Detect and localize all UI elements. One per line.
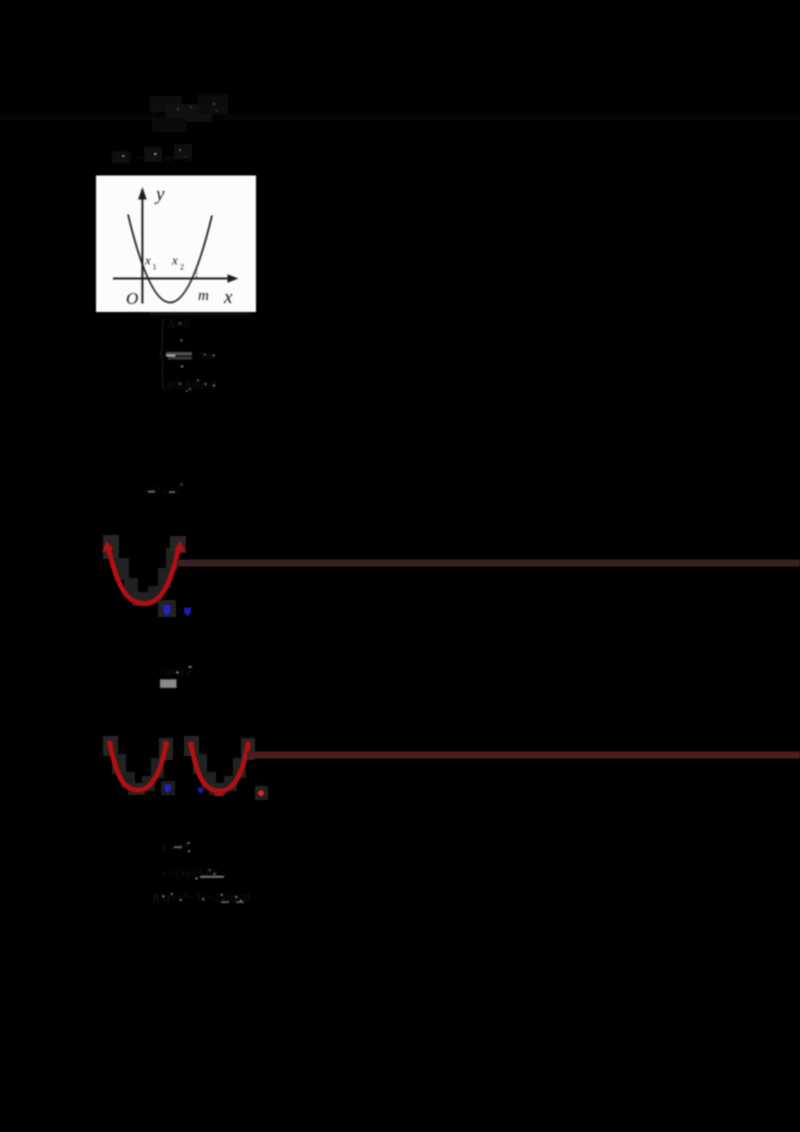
right arrowhead (175, 541, 186, 553)
halo blocks curve B (184, 736, 199, 756)
faint separator band (0, 113, 800, 120)
blue mark 2 (184, 608, 191, 617)
gray artifact halo blocks (103, 535, 119, 559)
figure: white box with parabola graph (96, 176, 256, 316)
svg-text:1: 1 (153, 263, 157, 272)
svg-text:<m: <m (197, 348, 214, 362)
drawing 2: two red parabolas (103, 736, 255, 796)
red curve A (110, 744, 166, 790)
svg-text:x: x (223, 287, 233, 308)
bottom formulas (very dark) (153, 840, 250, 904)
svg-text:y: y (154, 184, 165, 205)
svg-text:x: x (144, 253, 151, 268)
drawing 1: red parabola with arrows (102, 535, 186, 606)
blue mark 3 (161, 781, 175, 795)
red curve (109, 548, 179, 604)
x-axis (113, 278, 229, 280)
halo blocks curve A (103, 736, 118, 756)
system of conditions with brace (very dark) (160, 317, 216, 392)
svg-text:y=-(x-2)²+h·k: y=-(x-2)²+h·k (150, 103, 226, 118)
svg-text:2: 2 (180, 263, 184, 272)
white panel (96, 176, 256, 313)
svg-text:x: x (171, 253, 178, 268)
svg-text:x₁=1,x₂=2: x₁=1,x₂=2 (143, 484, 180, 496)
red dash under curve B vertex (215, 793, 224, 796)
formula line 2 (very dark): x^2-3x+m^2=0 (112, 144, 192, 165)
svg-text:∴ x=(3±√5)/2: ∴ x=(3±√5)/2 (153, 866, 218, 880)
brace (160, 318, 165, 391)
vertex dot (147, 600, 151, 604)
maroon horizontal line 1 (177, 560, 800, 567)
blue mark 1 (158, 600, 176, 617)
svg-text:m: m (198, 288, 209, 304)
dotted line at m (196, 270, 198, 279)
y-axis (141, 198, 143, 304)
parabola (128, 215, 212, 303)
red dot (255, 786, 268, 800)
left arrowhead (102, 541, 114, 553)
red curve B (191, 745, 248, 791)
svg-text:f(0),f(m)>0: f(0),f(m)>0 (167, 379, 216, 391)
svg-text:∵a≠0·x: ∵a≠0·x (157, 665, 192, 679)
svg-text:O: O (126, 289, 138, 308)
fraction (166, 352, 192, 356)
a!=0 line with gray highlight box (157, 665, 192, 688)
formula line 1 (very dark): y=-(x-2)^2+h*k (150, 94, 228, 132)
faint shadow under box (150, 312, 250, 316)
blue mark 4 (198, 788, 203, 794)
svg-text:∴ x² −3x+m²=0: ∴ x² −3x+m²=0 (112, 150, 192, 165)
maroon horizontal line 2 (247, 752, 800, 759)
roots line (very dark): x1=1, x2=2 (143, 484, 182, 497)
svg-text:f(x)=x²−3x+2√m=0: f(x)=x²−3x+2√m=0 (153, 890, 250, 904)
labels (126, 184, 233, 308)
